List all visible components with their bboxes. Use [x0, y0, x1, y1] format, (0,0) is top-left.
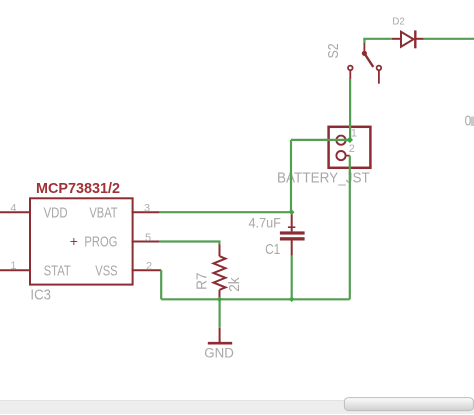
- label IC3: [30, 287, 51, 304]
- svg-text:C1: C1: [265, 242, 280, 258]
- scrollbar thumb: [344, 398, 473, 411]
- pin 1 stub: [0, 269, 30, 271]
- svg-text:3: 3: [144, 203, 150, 215]
- svg-text:1: 1: [10, 260, 16, 272]
- svg-text:VDD: VDD: [44, 206, 68, 222]
- label S2: [326, 43, 342, 58]
- svg-text:STAT: STAT: [44, 264, 71, 280]
- pin 3 stub: [132, 211, 160, 213]
- label GND: [204, 345, 234, 360]
- resistor R7: [214, 243, 226, 299]
- wire ground rail: [161, 298, 350, 300]
- wire R7 to ground: [219, 299, 221, 328]
- svg-text:4.7uF: 4.7uF: [249, 214, 281, 230]
- svg-text:5: 5: [145, 232, 151, 244]
- label 4.7uF: [249, 214, 281, 230]
- ground: [208, 328, 232, 343]
- wire C1 bottom: [291, 256, 293, 300]
- pin 2 stub: [132, 269, 162, 271]
- junction at JST pin 1: [347, 137, 354, 144]
- pin 5 stub: [132, 241, 160, 243]
- pin number 3: [144, 203, 150, 215]
- connector pin number 1: [351, 128, 357, 140]
- svg-text:+: +: [70, 233, 78, 249]
- junction at VBAT/C1: [289, 209, 295, 215]
- wire switch to JST: [349, 79, 351, 140]
- svg-text:PROG: PROG: [84, 235, 117, 251]
- wire JST pin 2 down: [349, 156, 351, 300]
- wire diode to right edge: [424, 38, 474, 40]
- pin 4 stub: [0, 211, 30, 213]
- connector BATTERY_JST: [329, 127, 371, 168]
- wire to JST pin 1: [291, 139, 350, 141]
- polarity mark + on PROG: [70, 233, 78, 249]
- svg-text:2: 2: [349, 143, 355, 155]
- pin name VSS: [95, 264, 117, 280]
- svg-text:R7: R7: [195, 273, 211, 290]
- svg-text:VBAT: VBAT: [89, 206, 117, 222]
- svg-text:D2: D2: [392, 15, 405, 27]
- connector pin number 2: [349, 143, 355, 155]
- capacitor C1: [280, 212, 305, 256]
- scrollbar track: [0, 400, 474, 414]
- wire switch corner: [363, 39, 365, 43]
- svg-text:0: 0: [465, 113, 472, 130]
- pin number 5: [145, 232, 151, 244]
- wire VBAT up: [290, 140, 292, 212]
- label BATTERY_JST: [277, 169, 370, 186]
- junction at R7/ground rail: [217, 297, 223, 303]
- pin number 2: [146, 260, 152, 272]
- svg-text:MCP73831/2: MCP73831/2: [36, 181, 120, 197]
- svg-text:2: 2: [146, 260, 152, 272]
- label MCP73831/2: [36, 181, 120, 197]
- svg-text:GND: GND: [204, 345, 234, 360]
- svg-text:1: 1: [351, 128, 357, 140]
- label 0 (clipped at right edge): [465, 113, 474, 130]
- IC IC3 MCP73831/2 body: [30, 198, 133, 284]
- pin number 4: [10, 203, 16, 215]
- junction at C1/ground rail: [289, 297, 295, 303]
- svg-text:VSS: VSS: [95, 264, 117, 280]
- pin name PROG: [84, 235, 117, 251]
- label D2: [392, 15, 405, 27]
- svg-text:4: 4: [10, 203, 16, 215]
- svg-text:2k: 2k: [227, 277, 243, 292]
- wire PROG to R7: [159, 242, 219, 245]
- pin name STAT: [44, 264, 71, 280]
- wire VSS down: [160, 270, 162, 299]
- svg-text:IC3: IC3: [30, 287, 51, 304]
- pin number 1: [10, 260, 16, 272]
- svg-text:S2: S2: [326, 43, 342, 58]
- label R7: [195, 273, 211, 290]
- diode D2: [392, 30, 424, 48]
- wire VBAT rail: [159, 211, 291, 213]
- pin name VDD: [44, 206, 68, 222]
- switch S2: [348, 42, 381, 84]
- label 2k: [227, 277, 243, 292]
- label C1: [265, 242, 280, 258]
- wire switch to diode: [363, 38, 392, 40]
- pin name VBAT: [89, 206, 117, 222]
